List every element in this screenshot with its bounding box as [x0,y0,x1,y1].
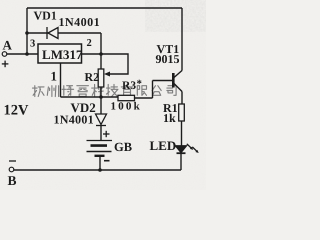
node dot VD1 left [25,31,29,35]
pin 2 label [87,39,91,46]
label R1 [163,104,177,112]
resistor R2 (pot) body [98,69,104,87]
LED symbol [176,146,187,153]
label LED [150,142,176,151]
label R3 [122,81,136,89]
label VT1 [157,45,179,53]
wire VD1 branch [27,32,101,34]
wire top rail [27,7,182,9]
wire adj node horizontal [61,96,119,98]
value 1k [164,114,176,122]
pin 3 label [30,40,35,47]
resistor R3 body [118,95,135,100]
node dot pin 2 junction [99,52,103,56]
wire VD2 to battery [100,125,102,140]
terminal label A [3,41,12,50]
resistor R1 body [179,104,185,121]
wire base lead [153,80,173,82]
LED emission arrows [187,144,199,153]
top-right scan mottle [0,0,1,1]
wire VD1 downleg [100,33,102,54]
polarity plus at A [2,61,9,68]
wire input A to pin 3 [7,53,38,55]
wire pin 1 lead [60,63,62,97]
value 100k [111,102,139,110]
terminal A circle [2,52,7,57]
regulator U1 LM317 box [38,44,82,63]
diode VD2 [96,114,107,126]
wire R2 wiper loop [101,54,128,74]
label 1N4001 (VD2) [55,116,94,124]
pin 1 label [52,72,57,81]
wire R2 bottom lead [100,87,102,97]
transistor VT1 collector [174,84,182,92]
label VD1 [34,12,57,20]
wire pin 2 output [82,53,102,55]
R2 wiper arrowhead [104,72,110,77]
node dot battery ground [98,168,102,172]
transistor VT1 base bar [172,73,175,88]
wire R1 to LED [181,121,183,146]
transistor VT1 emitter [174,71,182,78]
label VD2 [71,103,96,112]
polarity minus at B [9,160,16,162]
wire left vertical [26,8,28,54]
label LM317 [42,50,82,59]
terminal label B [8,176,16,185]
wire collector drop [181,92,183,105]
label 12V [5,105,29,115]
wire R2 top lead [100,54,102,69]
label 1N4001 (VD1) [60,18,100,26]
watermark company text [33,85,177,97]
wire VD2 top lead [100,97,102,114]
polarity plus at battery [103,131,110,137]
polarity minus at battery [104,160,110,162]
terminal B circle [9,167,14,172]
value 9015 [156,55,179,63]
wire bottom rail [14,169,182,171]
wire LED to rail [180,153,182,170]
battery GB plates [87,141,113,156]
label GB [115,143,132,151]
wire right rail to emitter [181,8,183,71]
diode VD1 [47,27,58,39]
node dot adj junction [99,95,103,99]
label star [137,80,142,84]
node dot A junction [25,52,29,56]
scan grain [0,0,1,1]
wire base riser [152,81,154,99]
label R2 [85,73,99,81]
wire battery to ground rail [99,156,101,170]
wire R3 right lead [135,97,153,99]
